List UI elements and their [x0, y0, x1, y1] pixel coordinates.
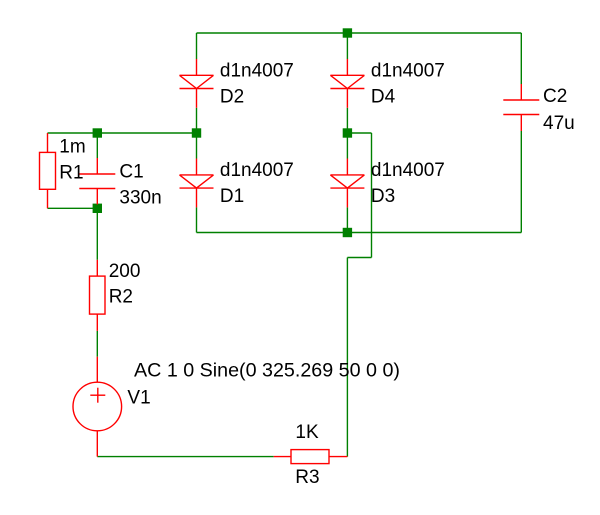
wire C2 bottom to bottom rail: [520, 131, 522, 233]
svg-text:1K: 1K: [295, 422, 319, 443]
wire top rail: [197, 32, 522, 34]
resistor R3: [274, 450, 348, 464]
svg-text:47u: 47u: [543, 113, 575, 134]
node junction top rail mid: [343, 28, 352, 37]
svg-text:D1: D1: [220, 186, 244, 207]
voltage source V1: [73, 357, 122, 457]
svg-text:d1n4007: d1n4007: [220, 60, 294, 81]
wire node A horizontal (R1 top to bridge): [48, 132, 197, 134]
wire left branch top (to D2): [196, 33, 198, 59]
wire C1 bottom stub: [96, 204, 98, 208]
svg-text:D3: D3: [371, 186, 395, 207]
svg-text:R2: R2: [109, 287, 133, 308]
diode D1: [180, 159, 214, 208]
node junction bridge left mid: [192, 128, 201, 137]
node junction C1 top: [93, 128, 102, 137]
capacitor C1: [79, 158, 115, 205]
wire mid branch top (to D4): [346, 33, 348, 59]
svg-text:C2: C2: [543, 86, 567, 107]
diode D3: [330, 159, 364, 208]
svg-text:C1: C1: [119, 161, 143, 182]
wire bottom rail: [197, 232, 522, 234]
diode D4: [330, 59, 364, 108]
wire V1 bottom rail to R3: [97, 456, 273, 458]
wire C1 top lead: [96, 133, 98, 158]
wire R1 bottom to C1 bottom: [48, 207, 98, 209]
node junction bridge right mid: [343, 128, 352, 137]
wire C2 top lead drop: [520, 33, 522, 84]
svg-text:R3: R3: [295, 467, 319, 488]
svg-text:1m: 1m: [59, 136, 85, 157]
svg-text:d1n4007: d1n4007: [371, 60, 445, 81]
wire mid branch middle (D4 to D3): [346, 108, 348, 159]
diode D2: [180, 59, 214, 108]
wire left branch middle (D2 to D1): [196, 108, 198, 159]
wire jog vertical: [371, 133, 373, 258]
resistor R2: [90, 260, 106, 331]
svg-text:D4: D4: [371, 86, 396, 107]
wire left branch bottom (D1 to rail): [196, 207, 198, 232]
svg-text:D2: D2: [220, 86, 244, 107]
wire mid branch bottom (D3 to rail): [346, 207, 348, 232]
svg-text:R1: R1: [59, 163, 83, 184]
wire node to R2: [96, 208, 98, 259]
node junction C1 bottom: [93, 204, 102, 213]
resistor R1: [40, 133, 56, 208]
wire jog horizontal: [347, 257, 371, 259]
capacitor C2: [503, 84, 539, 131]
wire bridge AC node to jog: [347, 132, 371, 134]
svg-text:V1: V1: [127, 388, 150, 409]
svg-text:200: 200: [109, 261, 141, 282]
wire R3 right vertical riser: [346, 258, 348, 457]
svg-text:d1n4007: d1n4007: [220, 160, 294, 181]
svg-text:330n: 330n: [119, 187, 161, 208]
svg-text:d1n4007: d1n4007: [371, 160, 445, 181]
node junction bottom rail mid: [343, 228, 352, 237]
svg-text:AC 1 0 Sine(0 325.269 50 0 0): AC 1 0 Sine(0 325.269 50 0 0): [134, 359, 400, 381]
wire R2 to V1: [96, 331, 98, 357]
